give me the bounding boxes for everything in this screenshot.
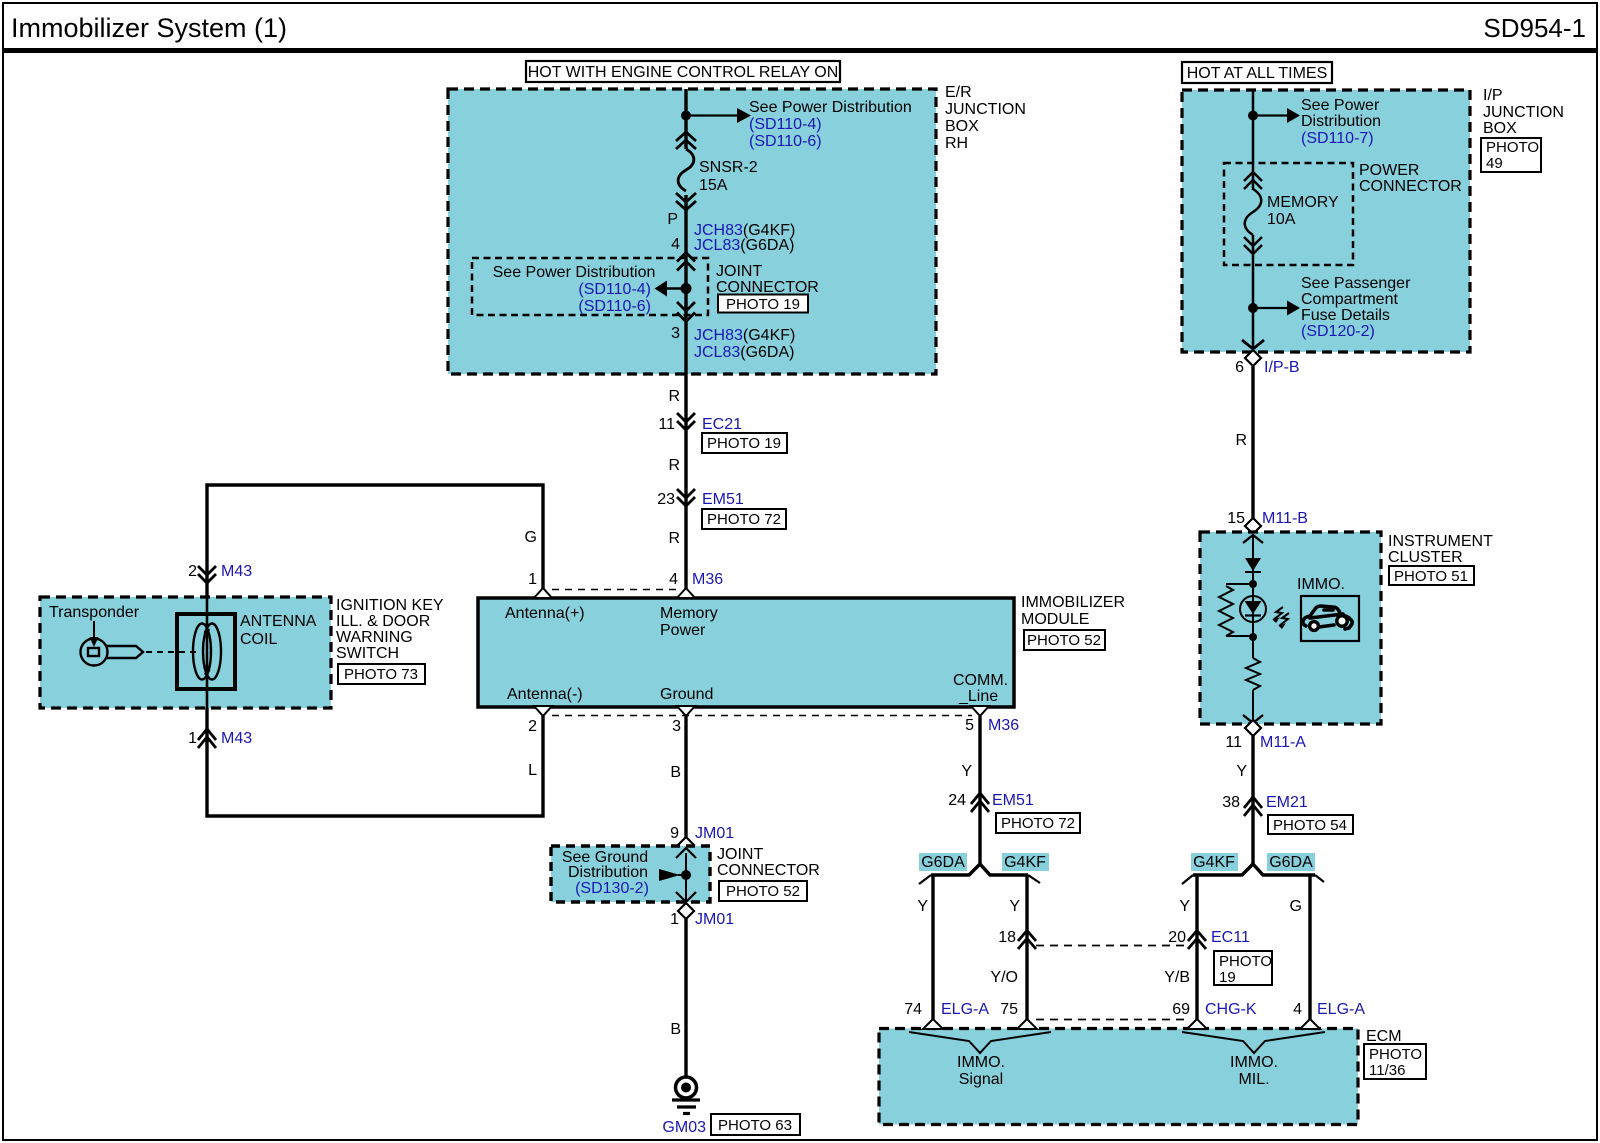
svg-text:MEMORY: MEMORY bbox=[1267, 194, 1339, 211]
connector 38 EM21 bbox=[1244, 797, 1262, 816]
svg-text:2: 2 bbox=[528, 718, 537, 735]
svg-text:M36: M36 bbox=[988, 717, 1019, 734]
svg-text:EM51: EM51 bbox=[992, 792, 1034, 809]
label POWER CONNECTOR bbox=[1359, 162, 1462, 195]
header box HOT WITH ENGINE CONTROL RELAY ON bbox=[526, 61, 840, 82]
ECM pin 74 triangle bbox=[923, 1019, 943, 1029]
module pin labels row top: 1 / 4 M36 bbox=[528, 571, 723, 588]
wire G branch G6DA to ECM pin 4 bbox=[1308, 875, 1311, 1020]
joint connector box (ground, cyan dashed) bbox=[551, 846, 710, 902]
fork end ticks bbox=[1182, 875, 1324, 884]
svg-text:CONNECTOR: CONNECTOR bbox=[717, 862, 820, 879]
svg-text:B: B bbox=[670, 764, 681, 781]
svg-text:(SD110-4): (SD110-4) bbox=[578, 281, 651, 298]
label 11 EC21 PHOTO 19 bbox=[658, 416, 787, 453]
node: junction dot I/P feed bbox=[1248, 111, 1258, 121]
label: See Power Distribution (SD110-4)(SD110-6) inner bbox=[493, 264, 656, 315]
node: junction dot (fuse details) bbox=[1248, 303, 1258, 313]
node: junction dot at E/R feed bbox=[681, 111, 691, 121]
svg-text:(SD120-2): (SD120-2) bbox=[1301, 323, 1375, 340]
svg-text:18: 18 bbox=[998, 929, 1016, 946]
svg-text:JUNCTION: JUNCTION bbox=[1483, 104, 1564, 121]
label See Ground Distribution (SD130-2) bbox=[562, 849, 649, 897]
svg-text:P: P bbox=[667, 211, 678, 228]
svg-text:HOT WITH ENGINE CONTROL RELAY: HOT WITH ENGINE CONTROL RELAY ON bbox=[528, 64, 839, 81]
wire through ignition key switch box bbox=[206, 597, 209, 708]
svg-text:Ground: Ground bbox=[660, 686, 713, 703]
svg-text:JOINT: JOINT bbox=[716, 263, 762, 280]
label ANTENNA COIL bbox=[240, 613, 317, 648]
svg-text:G4KF: G4KF bbox=[1193, 854, 1235, 871]
svg-text:IGNITION KEY: IGNITION KEY bbox=[336, 597, 444, 614]
connector 20 EC11 chevron bbox=[1188, 931, 1206, 950]
wire to bottom of cluster bbox=[1252, 690, 1254, 720]
svg-text:PHOTO: PHOTO bbox=[1486, 139, 1539, 156]
svg-text:R: R bbox=[668, 388, 680, 405]
svg-text:JUNCTION: JUNCTION bbox=[945, 101, 1026, 118]
svg-text:Distribution: Distribution bbox=[568, 864, 648, 881]
node dot lower bbox=[1249, 633, 1257, 641]
label 20 EC11 PHOTO 19 bbox=[1168, 929, 1272, 986]
pin 5 triangle bbox=[971, 706, 989, 716]
svg-text:6: 6 bbox=[1235, 359, 1244, 376]
immobilizer module box bbox=[478, 598, 1014, 707]
node: joint connector dot bbox=[681, 283, 692, 294]
svg-text:4: 4 bbox=[671, 236, 680, 253]
svg-text:GM03: GM03 bbox=[662, 1119, 706, 1136]
LED triangle bbox=[1245, 601, 1262, 614]
svg-text:SNSR-2: SNSR-2 bbox=[699, 159, 758, 176]
diode (filled triangle) bbox=[1245, 558, 1261, 571]
connector 2 M43 bbox=[188, 563, 252, 583]
svg-text:BOX: BOX bbox=[1483, 120, 1517, 137]
svg-text:SWITCH: SWITCH bbox=[336, 645, 399, 662]
pin 11 M11-A connector bbox=[1225, 720, 1306, 751]
wire: B+ feed into E/R box down to fuse SNSR-2 bbox=[684, 89, 687, 149]
svg-text:MIL.: MIL. bbox=[1238, 1071, 1269, 1088]
dashed link pin1-pin4 bbox=[552, 589, 678, 591]
wire: arrow to See Power Distribution (SD110-7) bbox=[1253, 108, 1300, 123]
ECM pin 4 triangle bbox=[1300, 1019, 1320, 1029]
svg-text:49: 49 bbox=[1486, 155, 1503, 172]
label G6DA (highlight) bbox=[1267, 853, 1315, 871]
svg-text:Y/B: Y/B bbox=[1164, 969, 1190, 986]
wire R from I/P-B to M11-B bbox=[1251, 366, 1254, 519]
label G4KF (highlight) bbox=[1002, 853, 1049, 871]
pin 9 JM01 connector bbox=[670, 825, 734, 853]
connector 11 EC21 bbox=[677, 413, 695, 430]
wire B: ground pin 3 down to GM03 bbox=[684, 716, 687, 838]
svg-text:R: R bbox=[668, 457, 680, 474]
pin 6 I/P-B connector bbox=[1235, 340, 1299, 376]
wire: fuse to joint connector bbox=[684, 195, 687, 374]
svg-text:EC21: EC21 bbox=[702, 416, 742, 433]
label GM03 PHOTO 63 bbox=[662, 1114, 800, 1136]
svg-text:Distribution: Distribution bbox=[1301, 113, 1381, 130]
pin 4 triangle bbox=[677, 588, 695, 598]
svg-text:SD954-1: SD954-1 bbox=[1483, 13, 1586, 43]
pin 15 M11-B connector bbox=[1227, 510, 1308, 534]
wire B to ground bbox=[684, 919, 687, 1077]
svg-text:ELG-A: ELG-A bbox=[941, 1001, 989, 1018]
ECM pin 75 triangle bbox=[1017, 1019, 1037, 1029]
svg-text:PHOTO 63: PHOTO 63 bbox=[718, 1117, 792, 1134]
svg-text:ILL. & DOOR: ILL. & DOOR bbox=[336, 613, 430, 630]
label: See Passenger Compartment Fuse Details (SD120-2) bbox=[1301, 275, 1411, 340]
svg-text:IMMOBILIZER: IMMOBILIZER bbox=[1021, 594, 1125, 611]
label 24 EM51 PHOTO 72 bbox=[948, 792, 1080, 833]
wire Y branch G4KF to ECM pin 69 bbox=[1195, 875, 1198, 1020]
fork end ticks bbox=[919, 875, 1040, 884]
svg-text:IMMO.: IMMO. bbox=[957, 1054, 1005, 1071]
svg-text:JCL83(G6DA): JCL83(G6DA) bbox=[694, 344, 794, 361]
svg-text:Memory: Memory bbox=[660, 605, 718, 622]
coil dotted core line bbox=[204, 626, 211, 678]
svg-text:24: 24 bbox=[948, 792, 966, 809]
brace IMMO. MIL. bbox=[1182, 1032, 1325, 1053]
svg-text:Power: Power bbox=[660, 622, 706, 639]
svg-text:(SD110-6): (SD110-6) bbox=[749, 133, 822, 150]
label: SNSR-2 15A bbox=[699, 159, 758, 194]
pin 1 triangle bbox=[534, 588, 552, 598]
LED light arrows bbox=[1273, 607, 1289, 626]
svg-text:1: 1 bbox=[528, 571, 537, 588]
svg-text:75: 75 bbox=[1000, 1001, 1018, 1018]
svg-text:WARNING: WARNING bbox=[336, 629, 413, 646]
pin P / 4 labels with wire names JCH83(G4KF) JCL83(G6DA) bbox=[667, 211, 795, 254]
wire: arrow to See Passenger Compartment Fuse Details bbox=[1253, 301, 1300, 316]
svg-text:IMMO.: IMMO. bbox=[1297, 576, 1345, 593]
svg-text:IMMO.: IMMO. bbox=[1230, 1054, 1278, 1071]
ECM pin 69 triangle bbox=[1187, 1019, 1207, 1029]
pin 3 triangle bbox=[677, 706, 695, 716]
svg-text:ECM: ECM bbox=[1366, 1028, 1402, 1045]
E/R junction box label bbox=[945, 84, 1026, 152]
wire inside cluster bbox=[1252, 534, 1254, 658]
svg-text:Y: Y bbox=[1009, 898, 1020, 915]
svg-text:CLUSTER: CLUSTER bbox=[1388, 549, 1463, 566]
svg-text:JM01: JM01 bbox=[695, 911, 734, 928]
svg-text:PHOTO 72: PHOTO 72 bbox=[1001, 815, 1075, 832]
wire fork EM51 to G6DA / G4KF branches bbox=[931, 864, 1028, 875]
svg-text:Immobilizer System (1): Immobilizer System (1) bbox=[11, 13, 287, 43]
label IMMO. and car icon bbox=[1297, 576, 1359, 641]
svg-text:G4KF: G4KF bbox=[1004, 854, 1046, 871]
ground GM03 symbol bbox=[672, 1077, 700, 1114]
label Transponder with arrow bbox=[49, 604, 140, 647]
svg-text:E/R: E/R bbox=[945, 84, 972, 101]
svg-text:JOINT: JOINT bbox=[717, 846, 763, 863]
ECM box (cyan dashed) bbox=[879, 1029, 1358, 1125]
svg-text:EC11: EC11 bbox=[1211, 929, 1250, 946]
svg-text:R: R bbox=[1235, 432, 1247, 449]
svg-text:PHOTO 51: PHOTO 51 bbox=[1394, 568, 1468, 585]
svg-text:G: G bbox=[525, 529, 537, 546]
wire: fuse to passenger compartment node bbox=[1252, 235, 1255, 348]
svg-text:PHOTO 72: PHOTO 72 bbox=[707, 511, 781, 528]
svg-text:G: G bbox=[1290, 898, 1302, 915]
inner dashed box See Power Distribution bbox=[472, 258, 708, 315]
wire Y branch G4KF to ECM pin 75 bbox=[1025, 875, 1028, 1020]
svg-text:(SD110-4): (SD110-4) bbox=[749, 116, 822, 133]
wire Y branch G6DA to ECM pin 74 bbox=[931, 875, 934, 1020]
svg-text:Y: Y bbox=[917, 898, 928, 915]
svg-text:(SD110-7): (SD110-7) bbox=[1301, 130, 1374, 147]
svg-text:EM21: EM21 bbox=[1266, 794, 1308, 811]
instrument cluster box (cyan dashed) bbox=[1200, 532, 1381, 724]
svg-text:PHOTO 73: PHOTO 73 bbox=[344, 666, 418, 683]
svg-text:Fuse Details: Fuse Details bbox=[1301, 307, 1390, 324]
fuse SNSR-2 15A bbox=[676, 132, 696, 210]
svg-text:See Power Distribution: See Power Distribution bbox=[493, 264, 656, 281]
svg-text:Antenna(-): Antenna(-) bbox=[507, 686, 583, 703]
I/P junction box (cyan dashed) bbox=[1182, 90, 1470, 352]
wire: arrow to See Power Distribution bbox=[686, 108, 751, 123]
svg-text:74: 74 bbox=[904, 1001, 922, 1018]
label 69 CHG-K / 4 ELG-A bbox=[1172, 1001, 1365, 1018]
wire: antenna loop (G / L) bbox=[207, 485, 543, 816]
wire Y: comm line pin 5 down to EM51 bbox=[978, 716, 981, 864]
label: See Power Distribution (SD110-4)(SD110-6) bbox=[749, 99, 912, 150]
svg-text:G6DA: G6DA bbox=[1269, 854, 1313, 871]
svg-text:Transponder: Transponder bbox=[49, 604, 140, 621]
label 38 EM21 PHOTO 54 bbox=[1222, 794, 1353, 834]
svg-text:R: R bbox=[668, 530, 680, 547]
svg-text:11: 11 bbox=[658, 416, 675, 433]
svg-text:Y: Y bbox=[1179, 898, 1190, 915]
cluster internal entry chevrons bbox=[1243, 535, 1263, 543]
label IMMOBILIZER MODULE PHOTO 52 bbox=[1021, 594, 1125, 650]
dashed link pin2-pin5 bbox=[552, 715, 972, 717]
E/R junction box (cyan dashed) bbox=[448, 89, 936, 374]
power connector dashed box bbox=[1224, 163, 1353, 265]
svg-text:23: 23 bbox=[657, 491, 675, 508]
svg-text:9: 9 bbox=[670, 825, 679, 842]
resistor (parallel branch) bbox=[1219, 584, 1253, 636]
svg-text:INSTRUMENT: INSTRUMENT bbox=[1388, 533, 1493, 550]
svg-text:ANTENNA: ANTENNA bbox=[240, 613, 317, 630]
svg-text:PHOTO 52: PHOTO 52 bbox=[1027, 632, 1101, 649]
svg-text:M11-B: M11-B bbox=[1262, 510, 1308, 527]
svg-text:Y: Y bbox=[1236, 763, 1247, 780]
svg-text:CHG-K: CHG-K bbox=[1205, 1001, 1257, 1018]
label 23 EM51 PHOTO 72 bbox=[657, 491, 786, 529]
wire: arrow from ground distribution bbox=[659, 869, 684, 881]
svg-text:Signal: Signal bbox=[959, 1071, 1003, 1088]
svg-text:L: L bbox=[528, 762, 537, 779]
svg-text:ELG-A: ELG-A bbox=[1317, 1001, 1365, 1018]
connector 18 chevron bbox=[1018, 931, 1036, 950]
svg-text:15: 15 bbox=[1227, 510, 1245, 527]
label G6DA (highlight) bbox=[919, 853, 967, 871]
ignition key ill. & door warning switch box (cyan dashed) bbox=[40, 597, 331, 708]
svg-text:15A: 15A bbox=[699, 177, 728, 194]
svg-text:11: 11 bbox=[1225, 734, 1242, 751]
svg-text:I/P-B: I/P-B bbox=[1264, 359, 1300, 376]
module pin labels row bottom: 2 / 3 / 5 M36 bbox=[528, 717, 1019, 735]
svg-text:G6DA: G6DA bbox=[921, 854, 965, 871]
wire R down to EC21 bbox=[684, 374, 687, 589]
joint connector chevrons (top) bbox=[677, 253, 695, 271]
label G4KF (highlight) bbox=[1191, 853, 1238, 871]
svg-text:PHOTO 52: PHOTO 52 bbox=[726, 883, 800, 900]
connector 23 EM51 bbox=[677, 489, 695, 506]
wire through joint connector bbox=[685, 853, 687, 903]
svg-text:3: 3 bbox=[671, 325, 680, 342]
svg-text:19: 19 bbox=[1219, 969, 1236, 986]
label IMMO. MIL. bbox=[1230, 1054, 1278, 1088]
svg-text:PHOTO 19: PHOTO 19 bbox=[726, 296, 800, 313]
label 74 ELG-A / 75 bbox=[904, 1001, 1018, 1018]
svg-text:PHOTO 19: PHOTO 19 bbox=[707, 435, 781, 452]
label: JOINT CONNECTOR PHOTO 19 bbox=[716, 263, 819, 313]
svg-text:CONNECTOR: CONNECTOR bbox=[716, 279, 819, 296]
pin 3 labels JCH83(G4KF) JCL83(G6DA) bbox=[671, 325, 795, 361]
svg-text:BOX: BOX bbox=[945, 118, 979, 135]
svg-text:I/P: I/P bbox=[1483, 87, 1503, 104]
joint connector exit chevron bbox=[676, 892, 696, 902]
svg-text:PHOTO: PHOTO bbox=[1369, 1046, 1422, 1063]
svg-text:Antenna(+): Antenna(+) bbox=[505, 605, 585, 622]
svg-text:JCH83(G4KF): JCH83(G4KF) bbox=[694, 327, 795, 344]
fuse MEMORY 10A bbox=[1244, 172, 1262, 254]
title separator rule bbox=[2, 48, 1598, 53]
header box HOT AT ALL TIMES bbox=[1182, 62, 1332, 83]
I/P junction box label bbox=[1481, 87, 1564, 172]
dashed link 18-20 bbox=[1036, 945, 1188, 947]
svg-text:MODULE: MODULE bbox=[1021, 611, 1089, 628]
node: joint connector dot bbox=[681, 870, 691, 880]
svg-text:EM51: EM51 bbox=[702, 491, 744, 508]
module pin name texts bbox=[505, 605, 1008, 705]
svg-text:POWER: POWER bbox=[1359, 162, 1419, 179]
svg-text:COIL: COIL bbox=[240, 631, 277, 648]
svg-text:(SD130-2): (SD130-2) bbox=[575, 880, 649, 897]
LED indicator circle bbox=[1240, 596, 1266, 622]
svg-text:10A: 10A bbox=[1267, 211, 1296, 228]
svg-text:Compartment: Compartment bbox=[1301, 291, 1398, 308]
label INSTRUMENT CLUSTER PHOTO 51 bbox=[1388, 533, 1493, 585]
svg-text:5: 5 bbox=[965, 717, 974, 734]
svg-text:Y/O: Y/O bbox=[990, 969, 1018, 986]
transponder key symbol bbox=[81, 639, 144, 666]
svg-text:HOT AT ALL TIMES: HOT AT ALL TIMES bbox=[1187, 65, 1328, 82]
wire: arrow pointing left to See Power Distribution bbox=[655, 281, 687, 297]
svg-text:3: 3 bbox=[672, 718, 681, 735]
svg-text:1: 1 bbox=[670, 911, 679, 928]
connector 1 M43 bbox=[188, 729, 252, 748]
dashed link 75-69 bbox=[1036, 1019, 1188, 1021]
svg-text:M36: M36 bbox=[692, 571, 723, 588]
svg-text:See Power Distribution: See Power Distribution bbox=[749, 99, 912, 116]
wire: B+ feed in I/P box bbox=[1252, 90, 1255, 190]
wire Y from M11-A to EM21 bbox=[1251, 736, 1254, 864]
pin 1 JM01 connector bbox=[670, 903, 734, 928]
svg-text:Y: Y bbox=[961, 763, 972, 780]
svg-text:See Passenger: See Passenger bbox=[1301, 275, 1411, 292]
svg-text:(SD110-6): (SD110-6) bbox=[578, 298, 651, 315]
svg-text:4: 4 bbox=[1293, 1001, 1302, 1018]
svg-text:38: 38 bbox=[1222, 794, 1240, 811]
wire fork EM21 to G4KF / G6DA branches bbox=[1193, 864, 1315, 875]
connector 24 EM51 bbox=[971, 793, 989, 812]
pin 2 triangle bbox=[534, 706, 552, 716]
label IMMO. Signal bbox=[957, 1054, 1005, 1088]
svg-text:2: 2 bbox=[188, 563, 197, 580]
svg-text:20: 20 bbox=[1168, 929, 1186, 946]
svg-text:M43: M43 bbox=[221, 563, 252, 580]
resistor (series lower) bbox=[1246, 658, 1260, 690]
label IGNITION KEY ILL. & DOOR WARNING SWITCH PHOTO 73 bbox=[336, 597, 444, 684]
svg-text:B: B bbox=[670, 1021, 681, 1038]
cluster internal exit chevrons bbox=[1243, 715, 1263, 723]
svg-text:RH: RH bbox=[945, 135, 968, 152]
label: See Power Distribution (SD110-7) bbox=[1301, 97, 1381, 147]
antenna coil windings bbox=[193, 624, 221, 680]
svg-text:JCL83(G6DA): JCL83(G6DA) bbox=[694, 237, 794, 254]
svg-text:PHOTO 54: PHOTO 54 bbox=[1273, 817, 1347, 834]
label MEMORY 10A bbox=[1267, 194, 1339, 228]
svg-text:COMM.: COMM. bbox=[953, 672, 1008, 689]
antenna coil box bbox=[177, 614, 235, 689]
svg-text:M11-A: M11-A bbox=[1260, 734, 1306, 751]
brace IMMO. Signal bbox=[909, 1032, 1051, 1053]
svg-text:69: 69 bbox=[1172, 1001, 1190, 1018]
svg-text:JM01: JM01 bbox=[695, 825, 734, 842]
label JOINT CONNECTOR PHOTO 52 bbox=[717, 846, 820, 901]
svg-text:CONNECTOR: CONNECTOR bbox=[1359, 178, 1462, 195]
svg-text:1: 1 bbox=[188, 730, 197, 747]
joint connector entry chevron bbox=[676, 848, 696, 858]
joint connector chevrons (bottom) bbox=[677, 302, 695, 322]
svg-text:PHOTO: PHOTO bbox=[1219, 953, 1272, 970]
svg-text:4: 4 bbox=[669, 571, 678, 588]
svg-text:M43: M43 bbox=[221, 730, 252, 747]
svg-text:11/36: 11/36 bbox=[1369, 1062, 1405, 1079]
dashed coupling line key to coil bbox=[146, 651, 196, 653]
label ECM PHOTO 11/36 bbox=[1364, 1028, 1426, 1079]
svg-text:See Power: See Power bbox=[1301, 97, 1380, 114]
svg-text:_Line: _Line bbox=[958, 688, 998, 705]
node dot upper bbox=[1249, 580, 1257, 588]
